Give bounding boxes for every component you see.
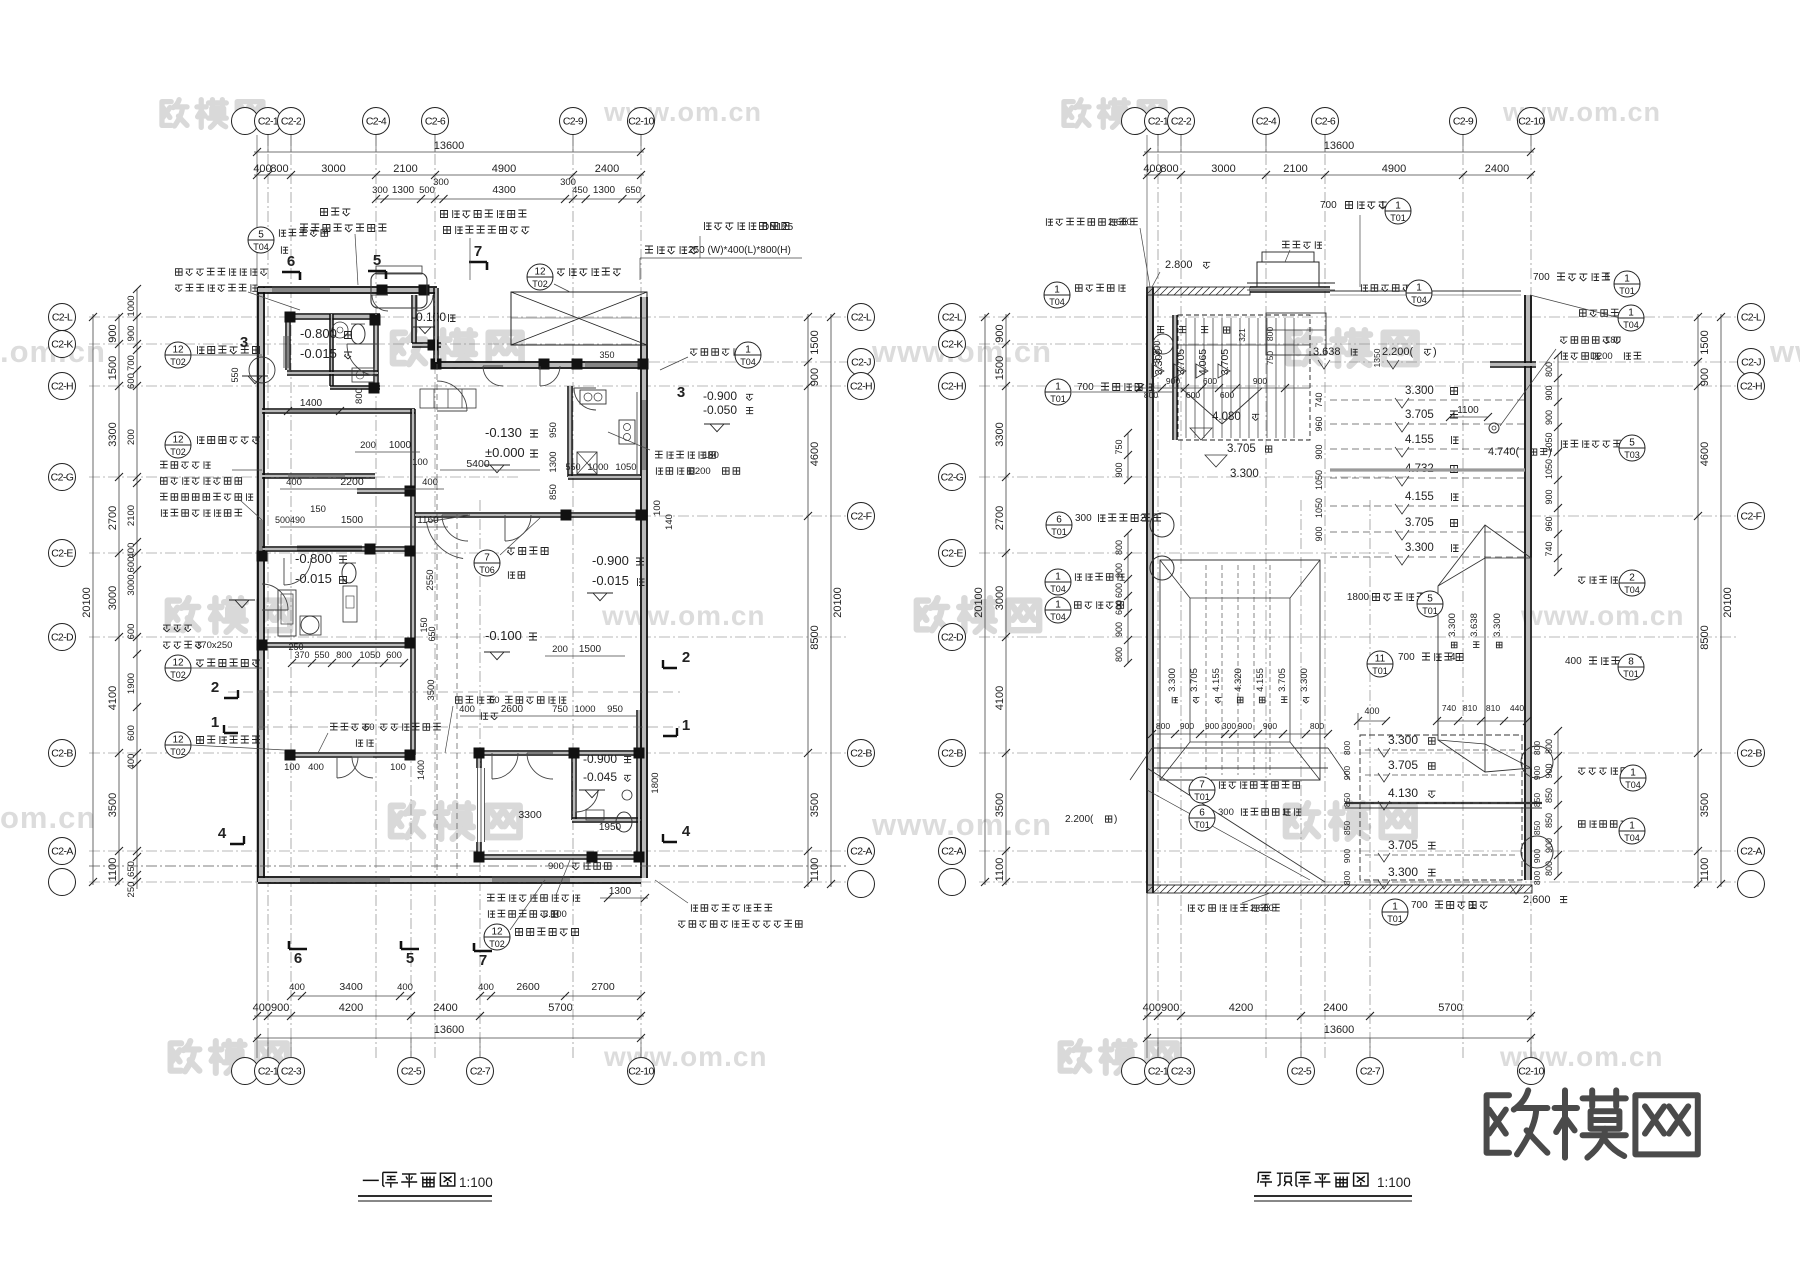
svg-text:C2-A: C2-A (51, 846, 73, 858)
svg-text:C2-B: C2-B (1740, 748, 1762, 760)
svg-text:4200: 4200 (339, 1002, 363, 1014)
svg-text:3500: 3500 (994, 793, 1006, 817)
svg-text:800: 800 (1532, 871, 1542, 885)
svg-text:7: 7 (484, 553, 490, 564)
svg-text:740: 740 (1442, 703, 1456, 713)
svg-text:C2-10: C2-10 (1518, 1066, 1544, 1078)
svg-text:T04: T04 (1624, 833, 1640, 843)
svg-text:60: 60 (489, 695, 500, 706)
svg-text:400: 400 (126, 543, 137, 559)
svg-text:1: 1 (1054, 285, 1060, 296)
svg-text:400: 400 (308, 762, 324, 773)
svg-text:150: 150 (310, 504, 326, 515)
svg-text:1: 1 (1055, 382, 1061, 393)
svg-text:D200: D200 (1590, 351, 1613, 362)
svg-text:C2-G: C2-G (941, 472, 964, 484)
svg-text:600: 600 (386, 650, 402, 661)
svg-text:3.300: 3.300 (1167, 668, 1178, 692)
svg-text:1000: 1000 (126, 295, 137, 316)
svg-text:3.300: 3.300 (1230, 468, 1259, 480)
svg-text:2.600: 2.600 (1108, 217, 1132, 228)
svg-text:C2-5: C2-5 (401, 1066, 422, 1078)
svg-text:C2-2: C2-2 (281, 116, 302, 128)
svg-text:5400: 5400 (466, 458, 490, 470)
svg-text:100: 100 (412, 457, 428, 468)
svg-text:T04: T04 (740, 357, 756, 367)
svg-text:T04: T04 (1049, 297, 1065, 307)
svg-text:-0.015: -0.015 (295, 571, 332, 586)
svg-text:T01: T01 (1051, 527, 1067, 537)
svg-text:2700: 2700 (994, 506, 1006, 530)
svg-text:3500: 3500 (107, 793, 119, 817)
svg-text:400: 400 (397, 982, 413, 993)
svg-text:-0.050: -0.050 (703, 403, 737, 417)
svg-text:T01: T01 (1619, 286, 1635, 296)
svg-text:1350: 1350 (1372, 348, 1382, 367)
svg-text:400: 400 (1143, 163, 1161, 175)
svg-text:850: 850 (1532, 793, 1542, 807)
svg-text:2100: 2100 (393, 163, 417, 175)
svg-text:900: 900 (1238, 721, 1252, 731)
svg-text:2700: 2700 (107, 506, 119, 530)
svg-text:1100: 1100 (1699, 858, 1711, 882)
svg-text:650: 650 (625, 185, 641, 196)
svg-text:3.638: 3.638 (1469, 613, 1480, 637)
svg-text:4100: 4100 (107, 686, 119, 710)
svg-text:12: 12 (534, 267, 546, 278)
svg-text:950: 950 (548, 422, 559, 438)
svg-text:600: 600 (1220, 390, 1234, 400)
svg-text:180: 180 (1605, 335, 1621, 346)
svg-text:C2-4: C2-4 (366, 116, 387, 128)
svg-text:C2-H: C2-H (1740, 381, 1762, 393)
svg-text:800: 800 (1156, 721, 1170, 731)
svg-text:-0.900: -0.900 (703, 389, 737, 403)
svg-text:C2-1: C2-1 (258, 116, 279, 128)
svg-text:C2-F: C2-F (851, 511, 872, 523)
svg-text:1500: 1500 (341, 515, 364, 526)
svg-text:C2-K: C2-K (941, 339, 963, 351)
svg-text:4900: 4900 (492, 163, 516, 175)
svg-text:4100: 4100 (994, 686, 1006, 710)
svg-text:740: 740 (1544, 541, 1554, 556)
svg-text:T01: T01 (1623, 669, 1639, 679)
svg-text:5: 5 (406, 950, 414, 967)
svg-text:3: 3 (677, 384, 685, 401)
svg-text:1900: 1900 (126, 673, 137, 694)
svg-text:3.638: 3.638 (1313, 346, 1341, 358)
svg-text:250: 250 (126, 882, 137, 898)
svg-text:750: 750 (1265, 351, 1275, 365)
svg-text:3: 3 (240, 334, 248, 351)
svg-text:4: 4 (218, 825, 227, 842)
svg-text:700: 700 (126, 355, 137, 371)
svg-text:1: 1 (745, 345, 751, 356)
svg-text:900: 900 (1544, 763, 1554, 778)
svg-text:1: 1 (1136, 382, 1142, 393)
svg-text:3.300: 3.300 (1447, 613, 1458, 637)
svg-text:12: 12 (172, 735, 184, 746)
svg-text:5: 5 (258, 230, 264, 241)
svg-text:800: 800 (1342, 871, 1352, 885)
svg-text:C2-B: C2-B (850, 748, 872, 760)
svg-text:3.300: 3.300 (1388, 733, 1418, 747)
svg-text:C2-10: C2-10 (628, 1066, 654, 1078)
svg-text:C2-L: C2-L (52, 312, 73, 324)
svg-text:600: 600 (1186, 390, 1200, 400)
svg-text:800: 800 (1144, 390, 1158, 400)
svg-text:900: 900 (107, 324, 119, 342)
svg-text:100: 100 (652, 500, 663, 516)
svg-text:810: 810 (1486, 703, 1500, 713)
svg-text:2: 2 (211, 679, 219, 696)
svg-text:C2-F: C2-F (1741, 511, 1762, 523)
svg-text:1400: 1400 (300, 398, 323, 409)
svg-text:300: 300 (1218, 807, 1234, 818)
svg-text:C2-1: C2-1 (258, 1066, 279, 1078)
svg-text:2: 2 (1629, 573, 1635, 584)
svg-text:300: 300 (1075, 513, 1092, 524)
svg-text:1: 1 (1629, 821, 1635, 832)
svg-text:350: 350 (599, 350, 614, 360)
svg-text:800: 800 (1265, 327, 1275, 341)
svg-text:3300: 3300 (994, 422, 1006, 446)
svg-text:4.320: 4.320 (1233, 668, 1244, 692)
svg-text:1500: 1500 (1699, 330, 1711, 354)
svg-text:950: 950 (607, 704, 623, 715)
svg-text:4.130: 4.130 (1388, 786, 1418, 800)
svg-text:5700: 5700 (1438, 1002, 1462, 1014)
svg-text:3300: 3300 (107, 422, 119, 446)
svg-text:-0.900: -0.900 (583, 752, 617, 766)
svg-text:C2-9: C2-9 (1453, 116, 1474, 128)
svg-text:700: 700 (1320, 200, 1337, 211)
svg-text:5: 5 (1629, 438, 1635, 449)
svg-text:8: 8 (1628, 657, 1634, 668)
svg-text:C2-10: C2-10 (628, 116, 654, 128)
svg-text:180: 180 (703, 450, 719, 461)
svg-text:www.om.cn: www.om.cn (871, 807, 1052, 842)
svg-text:1100: 1100 (1457, 405, 1479, 416)
svg-text:C2-1: C2-1 (1148, 116, 1169, 128)
svg-text:850: 850 (548, 484, 559, 500)
svg-text:60: 60 (364, 722, 375, 733)
svg-text:800: 800 (1532, 741, 1542, 755)
svg-text:20100: 20100 (973, 587, 985, 618)
svg-text:3000: 3000 (994, 586, 1006, 610)
svg-text:750: 750 (552, 704, 568, 715)
svg-text:2.800: 2.800 (1165, 259, 1193, 271)
svg-text:T01: T01 (1050, 394, 1066, 404)
svg-text:T02: T02 (170, 670, 186, 680)
svg-text:13600: 13600 (434, 1024, 465, 1036)
svg-text:1: 1 (1395, 201, 1401, 212)
svg-text:900: 900 (1699, 368, 1711, 386)
svg-text:1300: 1300 (593, 185, 616, 196)
svg-text:400: 400 (478, 982, 494, 993)
svg-text:C2-2: C2-2 (1171, 116, 1192, 128)
svg-text:900: 900 (1253, 376, 1267, 386)
svg-text:3.300: 3.300 (1405, 542, 1434, 554)
svg-text:900: 900 (1544, 489, 1554, 504)
svg-text:C2-4: C2-4 (1256, 116, 1277, 128)
svg-text:8500: 8500 (809, 625, 821, 649)
svg-text:C2-B: C2-B (51, 748, 73, 760)
svg-text:900: 900 (548, 861, 564, 872)
svg-text:400900: 400900 (1143, 1002, 1180, 1014)
svg-text:20100: 20100 (832, 587, 844, 618)
svg-text:C2-E: C2-E (51, 548, 73, 560)
svg-text:C2-9: C2-9 (563, 116, 584, 128)
svg-text:800: 800 (1342, 741, 1352, 755)
svg-text:2600: 2600 (516, 981, 540, 993)
svg-text:6: 6 (294, 950, 302, 967)
svg-text:900: 900 (1180, 721, 1194, 731)
svg-text:960: 960 (1314, 416, 1324, 431)
svg-text:T01: T01 (1422, 606, 1438, 616)
svg-text:3500: 3500 (1699, 793, 1711, 817)
svg-text:C2-A: C2-A (850, 846, 872, 858)
svg-text:1: 1 (1055, 600, 1061, 611)
svg-text:3.300: 3.300 (1299, 668, 1310, 692)
svg-text:3000: 3000 (1211, 163, 1235, 175)
svg-text:900: 900 (1314, 444, 1324, 459)
svg-text:2.200(: 2.200( (1065, 814, 1094, 825)
svg-text:20100: 20100 (81, 587, 93, 618)
svg-text:400: 400 (1364, 706, 1379, 716)
svg-text:5: 5 (1427, 594, 1433, 605)
svg-text:12: 12 (172, 658, 184, 669)
svg-text:5700: 5700 (548, 1002, 572, 1014)
svg-text:800: 800 (1114, 540, 1124, 555)
svg-text:1050: 1050 (1544, 432, 1554, 452)
svg-text:1300: 1300 (392, 185, 415, 196)
svg-text:T02: T02 (170, 357, 186, 367)
svg-text:810: 810 (1463, 703, 1477, 713)
svg-text:1:100: 1:100 (459, 1175, 493, 1190)
svg-text:T02: T02 (170, 447, 186, 457)
svg-text:3.705: 3.705 (1405, 409, 1434, 421)
svg-text:C2-H: C2-H (850, 381, 872, 393)
svg-text:-0.100: -0.100 (412, 310, 446, 324)
svg-text:6: 6 (1199, 808, 1205, 819)
svg-text:C2-J: C2-J (1741, 357, 1761, 369)
svg-text:2.600: 2.600 (1250, 903, 1274, 914)
svg-text:3.705: 3.705 (1405, 517, 1434, 529)
svg-text:C2-A: C2-A (941, 846, 963, 858)
svg-text:12: 12 (172, 435, 184, 446)
svg-text:550: 550 (230, 367, 240, 382)
svg-text:2100: 2100 (1283, 163, 1307, 175)
svg-text:3400: 3400 (339, 981, 363, 993)
svg-text:900: 900 (1114, 622, 1124, 637)
svg-text:900: 900 (126, 326, 137, 342)
svg-text:650: 650 (427, 626, 437, 641)
svg-text:600: 600 (1114, 583, 1124, 598)
svg-text:900: 900 (1544, 410, 1554, 425)
svg-text:1500: 1500 (809, 330, 821, 354)
svg-text:C2-7: C2-7 (1360, 1066, 1381, 1078)
svg-text:600: 600 (126, 725, 137, 741)
svg-text:C2-G: C2-G (51, 472, 74, 484)
svg-text:300: 300 (433, 177, 449, 188)
svg-text:C2-K: C2-K (51, 339, 73, 351)
svg-text:2: 2 (682, 649, 690, 666)
svg-text:900: 900 (1314, 526, 1324, 541)
svg-text:3.100: 3.100 (543, 909, 567, 920)
svg-text:1:100: 1:100 (1377, 1175, 1411, 1190)
svg-text:T06: T06 (479, 565, 495, 575)
svg-text:1050: 1050 (1314, 470, 1324, 490)
svg-text:700: 700 (1533, 272, 1550, 283)
svg-text:1800: 1800 (650, 772, 661, 793)
svg-text:1: 1 (1628, 308, 1634, 319)
svg-text:2: 2 (1140, 513, 1146, 524)
svg-text:500490: 500490 (275, 515, 305, 525)
svg-text:3300: 3300 (518, 809, 542, 821)
svg-text:800: 800 (1114, 647, 1124, 662)
svg-text:2.200(: 2.200( (1382, 346, 1414, 358)
svg-text:3.705: 3.705 (1189, 668, 1200, 692)
svg-text:960: 960 (1544, 516, 1554, 531)
svg-text:2.600: 2.600 (1523, 894, 1551, 906)
svg-text:1500: 1500 (994, 356, 1006, 380)
svg-text:): ) (1433, 346, 1437, 358)
svg-text:1800: 1800 (1347, 592, 1370, 603)
svg-text:om.cn: om.cn (0, 800, 96, 835)
svg-text:1050: 1050 (359, 650, 380, 661)
svg-text:C2-J: C2-J (851, 357, 871, 369)
svg-text:850: 850 (1544, 788, 1554, 803)
svg-text:3.300: 3.300 (1152, 341, 1162, 364)
svg-text:D200: D200 (688, 466, 711, 477)
svg-text:1300: 1300 (609, 886, 632, 897)
svg-text:): ) (1114, 814, 1117, 825)
svg-text:11: 11 (1375, 654, 1386, 665)
svg-text:400: 400 (126, 754, 137, 770)
svg-text:370: 370 (294, 650, 309, 660)
svg-text:800: 800 (1544, 861, 1554, 876)
svg-text:www.om.cn: www.om.cn (1520, 600, 1685, 631)
svg-text:8500: 8500 (1699, 625, 1711, 649)
svg-text:3000: 3000 (107, 586, 119, 610)
svg-text:100: 100 (284, 762, 300, 773)
svg-text:6: 6 (1056, 515, 1062, 526)
svg-text:800: 800 (1160, 163, 1178, 175)
svg-text:1050: 1050 (1314, 498, 1324, 518)
svg-text:-0.015: -0.015 (300, 346, 337, 361)
svg-text:C2-1: C2-1 (1148, 1066, 1169, 1078)
svg-text:3000: 3000 (321, 163, 345, 175)
svg-text:3000: 3000 (126, 574, 137, 595)
svg-text:3.300: 3.300 (1492, 613, 1503, 637)
svg-text:T04: T04 (253, 242, 269, 252)
svg-text:800: 800 (354, 388, 365, 404)
svg-text:2100: 2100 (126, 505, 137, 526)
svg-text:850: 850 (1544, 813, 1554, 828)
svg-text:1: 1 (1605, 272, 1611, 283)
svg-text:T04: T04 (1411, 295, 1427, 305)
svg-text:1950: 1950 (599, 822, 622, 833)
svg-text:±0.000: ±0.000 (485, 445, 525, 460)
svg-text:-0.130: -0.130 (485, 425, 522, 440)
svg-text:www.: www. (1769, 334, 1800, 369)
svg-text:3.705: 3.705 (1388, 838, 1418, 852)
svg-text:T02: T02 (532, 279, 548, 289)
svg-text:4.155: 4.155 (1255, 668, 1266, 692)
svg-text:1400: 1400 (416, 760, 426, 780)
svg-text:T01: T01 (1372, 666, 1388, 676)
svg-text:300: 300 (1222, 721, 1236, 731)
svg-text:3.705: 3.705 (1277, 668, 1288, 692)
svg-text:1: 1 (1282, 807, 1287, 818)
svg-text:3.705: 3.705 (1227, 443, 1256, 455)
svg-text:C2-D: C2-D (51, 632, 74, 644)
svg-text:7: 7 (474, 243, 482, 260)
svg-text:T04: T04 (1625, 780, 1641, 790)
svg-text:321: 321 (1238, 328, 1247, 342)
svg-text:T04: T04 (1050, 612, 1066, 622)
svg-text:400: 400 (459, 704, 475, 715)
svg-text:750: 750 (1114, 439, 1124, 454)
svg-text:C2-E: C2-E (941, 548, 963, 560)
svg-text:4: 4 (1450, 652, 1456, 663)
svg-text:13600: 13600 (1324, 1024, 1355, 1036)
svg-text:4600: 4600 (809, 442, 821, 466)
svg-text:5: 5 (373, 252, 381, 269)
svg-text:C2-3: C2-3 (281, 1066, 302, 1078)
svg-text:4.155: 4.155 (1211, 668, 1222, 692)
svg-text:800: 800 (336, 650, 352, 661)
svg-text:2700: 2700 (591, 981, 615, 993)
svg-text:C2-6: C2-6 (425, 116, 446, 128)
svg-text:900: 900 (1532, 849, 1542, 863)
svg-text:650: 650 (126, 861, 137, 877)
svg-text:2400: 2400 (595, 163, 619, 175)
svg-text:T02: T02 (489, 939, 505, 949)
svg-text:C2-10: C2-10 (1518, 116, 1544, 128)
svg-text:600: 600 (126, 557, 137, 573)
svg-text:3500: 3500 (809, 793, 821, 817)
svg-text:900: 900 (1166, 376, 1180, 386)
svg-text:20100: 20100 (1722, 587, 1734, 618)
svg-text:1500: 1500 (579, 644, 602, 655)
svg-text:C2-B: C2-B (941, 748, 963, 760)
svg-text:600: 600 (1114, 600, 1124, 615)
svg-text:1: 1 (1416, 283, 1422, 294)
svg-text:100: 100 (390, 762, 406, 773)
svg-text:-0.100: -0.100 (485, 628, 522, 643)
svg-text:www.om.cn: www.om.cn (603, 97, 762, 127)
svg-text:800: 800 (1310, 721, 1324, 731)
svg-text:1100: 1100 (107, 858, 119, 882)
svg-text:400900: 400900 (253, 1002, 290, 1014)
svg-text:4.740(: 4.740( (1488, 446, 1520, 458)
svg-text:400: 400 (286, 477, 302, 488)
svg-text:300: 300 (372, 185, 388, 196)
svg-text:T02: T02 (170, 747, 186, 757)
svg-text:200: 200 (126, 429, 137, 445)
svg-text:600: 600 (126, 624, 137, 640)
svg-text:3500: 3500 (426, 679, 437, 700)
svg-text:400: 400 (1565, 656, 1582, 667)
svg-text:450: 450 (572, 185, 588, 196)
svg-text:www.om.cn: www.om.cn (601, 600, 766, 631)
svg-text:700: 700 (1077, 382, 1094, 393)
svg-text:2200: 2200 (340, 476, 364, 488)
svg-text:C2-A: C2-A (1740, 846, 1762, 858)
svg-text:1500: 1500 (107, 356, 119, 380)
